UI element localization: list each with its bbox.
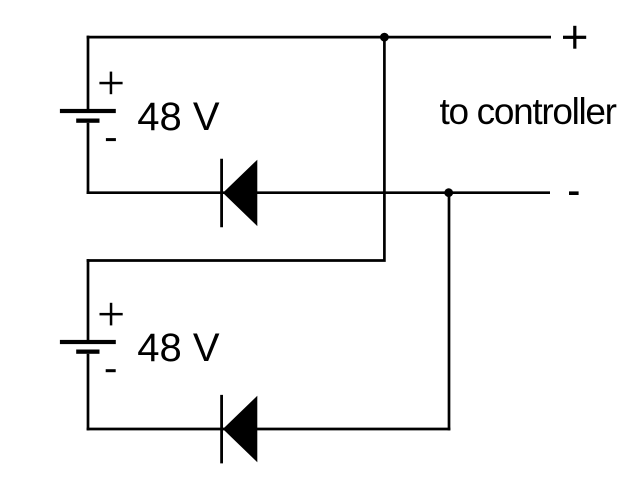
- battery B1 negative plate (short bar): [76, 119, 99, 123]
- battery B2 positive plate (long bar): [60, 340, 116, 344]
- wire: lower-left rail from battery B1 - plate down to mid bus: [87, 123, 90, 194]
- battery B2 - sign: [106, 369, 116, 372]
- node: junction of positive bus and middle rail: [380, 33, 389, 42]
- battery B2 + sign: [100, 303, 123, 326]
- svg-text:48 V: 48 V: [137, 95, 220, 139]
- + terminal label (to controller plus): [563, 26, 586, 49]
- wire: upper-left rail of second loop down to battery B2 + plate: [87, 259, 90, 340]
- node: junction of negative bus and right rail: [444, 188, 453, 197]
- wire: right rail from negative bus node down to bottom bus: [448, 193, 451, 431]
- diode D2 triangle (anode, pointing left): [223, 396, 257, 462]
- svg-text:48 V: 48 V: [137, 326, 220, 370]
- diode D2 cathode bar: [220, 395, 223, 464]
- diode D1 triangle (anode, pointing left): [223, 160, 257, 226]
- wire: lower-left rail from battery B2 - plate to bottom bus: [87, 354, 90, 431]
- - terminal label (to controller minus): [569, 191, 579, 195]
- wire: middle rail from positive bus down and left to second circuit: [87, 37, 385, 260]
- wire: negative mid bus from left rail to - terminal: [87, 191, 550, 194]
- diode D1 cathode bar: [220, 159, 223, 228]
- wire: bottom bus from left rail to right rail: [87, 428, 451, 431]
- battery B1 positive plate (long bar): [60, 109, 116, 113]
- svg-text:to controller: to controller: [440, 91, 618, 132]
- wire: upper-left rail from positive bus down to battery B1 + plate: [87, 36, 90, 109]
- wire: positive bus from top-left corner to + terminal: [87, 36, 551, 39]
- battery B1 + sign: [99, 72, 122, 95]
- battery B1 - sign: [106, 138, 116, 141]
- battery B2 negative plate (short bar): [76, 350, 99, 354]
